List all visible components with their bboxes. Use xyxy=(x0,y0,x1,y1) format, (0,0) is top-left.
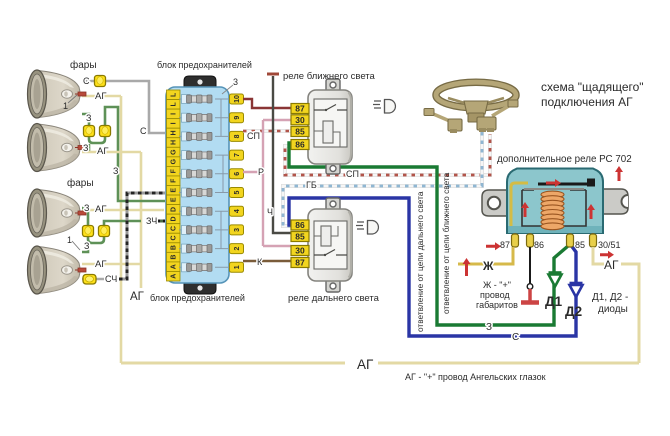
svg-text:I: I xyxy=(171,113,178,115)
svg-text:1: 1 xyxy=(67,235,72,245)
wire AG beige trunk 1 (vertical) xyxy=(120,96,123,363)
wire Z green chain headlight1-headlight2 xyxy=(82,107,165,201)
svg-text:З: З xyxy=(86,113,91,123)
svg-text:З: З xyxy=(486,322,492,333)
svg-text:габаритов: габаритов xyxy=(476,300,518,310)
svg-text:G: G xyxy=(171,149,178,155)
note D1 D2 diodes xyxy=(592,292,628,315)
wire AG yellow from pin 30/51 to right xyxy=(593,247,639,363)
svg-text:87: 87 xyxy=(295,258,305,268)
fuse box top mounting tab xyxy=(184,76,216,88)
steering wheel hub and column xyxy=(448,98,504,122)
svg-text:D: D xyxy=(171,216,178,221)
wire ZH yellow from pin 87 to left xyxy=(458,247,513,264)
wire GB blue-white striped high-beam branch to steering switch xyxy=(283,132,482,226)
high-beam relay pin 87 xyxy=(291,258,309,268)
svg-text:F: F xyxy=(171,178,178,183)
fuse 2 xyxy=(182,113,213,122)
relay PC702 yellow internal wire xyxy=(511,183,528,226)
svg-text:A: A xyxy=(171,264,178,269)
fuse box body xyxy=(166,87,229,283)
wire AG bottom long run xyxy=(121,362,639,365)
svg-text:АГ: АГ xyxy=(97,146,108,157)
wire SP red-white striped from fuse 9 to low-beam relay pin 85 xyxy=(243,129,291,133)
wire AG beige from headlight 4 to trunk 2 xyxy=(82,263,141,266)
low-beam relay bottom mounting tab xyxy=(326,161,340,174)
wire K brown from fuse 1 to high-beam relay pin 87 xyxy=(243,260,291,262)
fuse box letter strip cells xyxy=(167,90,181,281)
wire ZCH green-black striped into fuse box xyxy=(157,220,165,223)
terminal T bar of black wire CH xyxy=(267,73,279,76)
svg-text:диоды: диоды xyxy=(598,304,628,315)
relay PC702 left mounting ear xyxy=(482,190,507,216)
svg-text:Д1: Д1 xyxy=(545,294,563,309)
relay PC702 pin sleeve 85 xyxy=(567,234,574,247)
svg-text:подключения АГ: подключения АГ xyxy=(541,95,633,109)
red arrow right before pin 87 label xyxy=(486,242,501,250)
wire C gray from headlight 1 to fuse box xyxy=(82,81,165,133)
steering column left stalk xyxy=(424,109,462,134)
low-beam relay pin 30 xyxy=(291,115,309,125)
ground node circle xyxy=(527,284,533,290)
red arrow up above ZH wire note xyxy=(463,258,471,276)
svg-text:E: E xyxy=(171,197,178,202)
relay PC702 pin sleeve 86 xyxy=(527,234,534,247)
svg-text:6: 6 xyxy=(234,172,241,176)
svg-text:1: 1 xyxy=(234,265,241,269)
svg-text:85: 85 xyxy=(295,232,305,242)
svg-text:схема "щадящего": схема "щадящего" xyxy=(541,80,644,94)
svg-text:Д1, Д2 -: Д1, Д2 - xyxy=(592,292,628,303)
relay PC702 red arrow on contact bar xyxy=(546,179,561,187)
diode D2 (blue) xyxy=(570,283,583,297)
svg-text:F: F xyxy=(171,168,178,173)
wire green thick branch from low-beam circuit (to diode D1) xyxy=(289,143,570,325)
svg-text:ГБ: ГБ xyxy=(306,180,317,190)
headlight lamp 3 xyxy=(28,189,87,237)
connector pair lower right xyxy=(99,226,110,237)
svg-text:C: C xyxy=(171,226,178,231)
fuse 3 xyxy=(182,132,213,141)
svg-text:ЗЧ: ЗЧ xyxy=(146,216,157,226)
svg-text:3: 3 xyxy=(233,77,238,87)
svg-text:С: С xyxy=(83,76,90,86)
connector pair upper right xyxy=(100,126,111,137)
wire R pink from fuse box to both relays pin 30 xyxy=(243,120,291,246)
svg-text:E: E xyxy=(171,188,178,193)
svg-text:3: 3 xyxy=(234,228,241,232)
svg-text:фары: фары xyxy=(67,177,94,189)
svg-text:86: 86 xyxy=(295,220,305,230)
high-beam relay bottom mounting tab xyxy=(326,279,340,292)
svg-text:Р: Р xyxy=(258,167,264,177)
relay PC702 pin stems xyxy=(515,233,593,247)
wire AG beige from headlight 3 xyxy=(82,209,164,212)
wire SP red-white striped low-beam branch to steering switch xyxy=(285,134,490,175)
low-beam headlight beam icon xyxy=(373,100,395,114)
connector on wire C of headlight 1 xyxy=(95,76,106,87)
svg-text:9: 9 xyxy=(234,116,241,120)
svg-text:реле дальнего света: реле дальнего света xyxy=(288,293,380,304)
svg-text:З: З xyxy=(113,166,118,176)
connector pair lower left xyxy=(83,226,94,237)
low-beam relay body xyxy=(308,90,352,164)
svg-text:C: C xyxy=(171,235,178,240)
relay PC702 pin sleeve 87 xyxy=(512,234,519,247)
relay PC702 pin sleeve 30/51 xyxy=(590,234,597,247)
svg-text:ответвление от цепи дальнего с: ответвление от цепи дальнего света xyxy=(415,191,425,332)
svg-text:К: К xyxy=(257,257,263,267)
svg-text:СП: СП xyxy=(247,131,260,141)
svg-text:A: A xyxy=(171,274,178,279)
low-beam relay pin 87 xyxy=(291,104,309,114)
svg-text:З: З xyxy=(84,203,89,213)
wire Z green stub headlight 2 xyxy=(82,144,89,151)
svg-text:2: 2 xyxy=(234,247,241,251)
svg-text:1: 1 xyxy=(63,101,68,111)
connector on SCH wire of headlight 4 xyxy=(83,275,96,285)
fuse 9 xyxy=(182,244,213,253)
svg-text:30: 30 xyxy=(295,246,305,256)
svg-text:СП: СП xyxy=(346,169,359,179)
red arrow up at relay PC702 top right xyxy=(615,166,623,181)
svg-text:I: I xyxy=(171,122,178,124)
headlight lamp 1 xyxy=(28,70,87,118)
svg-text:провод: провод xyxy=(480,290,510,300)
svg-text:З: З xyxy=(84,241,89,251)
svg-text:АГ: АГ xyxy=(95,204,106,215)
relay PC702 top contact bar xyxy=(524,179,595,190)
high-beam relay pin 30 xyxy=(291,246,309,256)
wire dark-red from fuse 10 to low-beam relay pin 87 xyxy=(243,99,291,108)
svg-text:85: 85 xyxy=(295,127,305,137)
svg-text:5: 5 xyxy=(234,190,241,194)
svg-text:Ч: Ч xyxy=(267,207,273,217)
svg-text:87: 87 xyxy=(500,240,510,250)
fuse 5 xyxy=(182,169,213,178)
svg-text:86: 86 xyxy=(295,140,305,150)
svg-text:ответвление от цепи ближнего с: ответвление от цепи ближнего света xyxy=(441,172,451,314)
relay PC702 red arrow up left of coil xyxy=(521,202,529,217)
fuse 6 xyxy=(182,188,213,197)
svg-text:С: С xyxy=(140,126,147,136)
svg-text:АГ: АГ xyxy=(95,259,106,270)
wire AG beige stub from headlight 1 xyxy=(82,95,121,98)
label 1 leader for lamp 1 xyxy=(63,95,77,111)
svg-text:G: G xyxy=(171,158,178,164)
svg-text:8: 8 xyxy=(234,134,241,138)
high-beam relay pin 85 xyxy=(291,232,309,242)
svg-text:B: B xyxy=(171,245,178,250)
diode D1 (green) xyxy=(549,273,562,287)
wire SCH gray-black striped to fuse box xyxy=(119,193,165,279)
ground symbol red xyxy=(521,289,539,303)
svg-text:С: С xyxy=(512,332,519,343)
svg-text:30/51: 30/51 xyxy=(598,240,621,250)
relay PC702 coil xyxy=(541,191,564,230)
relay PC702 bottom band xyxy=(508,226,602,233)
svg-text:B: B xyxy=(171,255,178,260)
steering wheel rim xyxy=(436,82,516,108)
low-beam relay inner contact panel xyxy=(314,99,347,147)
fuse 1 (top, no.10) xyxy=(182,95,213,104)
wire AG beige trunk 2 (vertical) xyxy=(140,152,143,288)
svg-text:дополнительное реле РС 702: дополнительное реле РС 702 xyxy=(497,154,632,165)
svg-text:АГ: АГ xyxy=(604,258,619,272)
low-beam relay top mounting tab xyxy=(326,79,340,92)
svg-text:блок предохранителей: блок предохранителей xyxy=(157,60,252,70)
svg-text:АГ: АГ xyxy=(95,91,106,102)
svg-text:АГ - "+" провод Ангельских гла: АГ - "+" провод Ангельских глазок xyxy=(405,372,546,382)
fuse 4 xyxy=(182,151,213,160)
svg-text:АГ: АГ xyxy=(130,291,145,303)
high-beam headlight beam icon xyxy=(356,221,378,235)
svg-text:реле ближнего света: реле ближнего света xyxy=(283,71,376,82)
low-beam relay pin 85 xyxy=(291,127,309,137)
fuse box bottom mounting tab xyxy=(184,282,216,294)
svg-text:Ж - "+": Ж - "+" xyxy=(483,280,511,290)
wire Z green down to headlight 4 xyxy=(82,243,88,252)
fuse box internal bus lines xyxy=(179,99,231,267)
svg-text:АГ: АГ xyxy=(357,357,374,372)
relay PC702 red arrow up right of coil xyxy=(587,204,595,219)
svg-text:D: D xyxy=(171,207,178,212)
svg-text:H: H xyxy=(171,140,178,145)
high-beam relay pin 86 xyxy=(291,220,309,230)
relay PC702 core frame xyxy=(522,190,586,226)
fuse 7 xyxy=(182,207,213,216)
high-beam relay top mounting tab xyxy=(326,198,340,211)
fuse 10 (bottom, no.1) xyxy=(182,263,213,272)
svg-text:З: З xyxy=(83,143,88,153)
fuse box letter strip letters xyxy=(171,92,178,279)
svg-text:Д2: Д2 xyxy=(565,304,582,319)
svg-text:30: 30 xyxy=(295,115,305,125)
label 1 leader for lamp 4 xyxy=(67,235,80,250)
label 3 with leader at fuse box top xyxy=(222,77,238,94)
wire AG beige from headlight 2 to trunk 2 xyxy=(82,151,141,154)
svg-text:10: 10 xyxy=(234,95,241,103)
svg-text:85: 85 xyxy=(575,240,585,250)
headlight lamp 2 xyxy=(28,124,87,172)
svg-text:СЧ: СЧ xyxy=(105,274,117,284)
svg-text:4: 4 xyxy=(234,209,241,213)
note ZH plus wire of parking lights xyxy=(476,280,518,310)
relay PC702 body xyxy=(507,169,603,234)
svg-text:Ж: Ж xyxy=(482,261,494,273)
fuse number boxes right column xyxy=(230,94,244,272)
wire black from pin 86 to ground xyxy=(529,247,531,284)
wire Z green chain headlight3-headlight4 xyxy=(82,208,141,243)
svg-text:фары: фары xyxy=(70,59,97,71)
svg-text:L: L xyxy=(171,92,178,97)
svg-text:7: 7 xyxy=(234,153,241,157)
fuse 8 xyxy=(182,225,213,234)
wire SCH gray stub from headlight 4 xyxy=(82,278,104,281)
svg-text:87: 87 xyxy=(295,104,305,114)
red arrow right above AG label xyxy=(600,251,614,259)
svg-text:H: H xyxy=(171,130,178,135)
low-beam relay pin 86 xyxy=(291,140,309,150)
wire CH black vertical to high-beam relay pin 85 xyxy=(273,76,291,233)
svg-text:L: L xyxy=(171,101,178,106)
steering column right stalk xyxy=(477,100,518,132)
relay PC702 right mounting ear xyxy=(603,189,628,214)
fuse numbers xyxy=(234,95,241,269)
wire blue thick branch from high-beam circuit (to diode D2) xyxy=(289,198,576,336)
high-beam relay inner contact panel xyxy=(314,221,347,269)
high-beam relay body xyxy=(308,209,352,281)
connector pair upper left xyxy=(84,126,95,137)
svg-text:блок предохранителей: блок предохранителей xyxy=(150,293,245,303)
svg-text:86: 86 xyxy=(534,240,544,250)
headlight lamp 4 xyxy=(28,246,87,294)
